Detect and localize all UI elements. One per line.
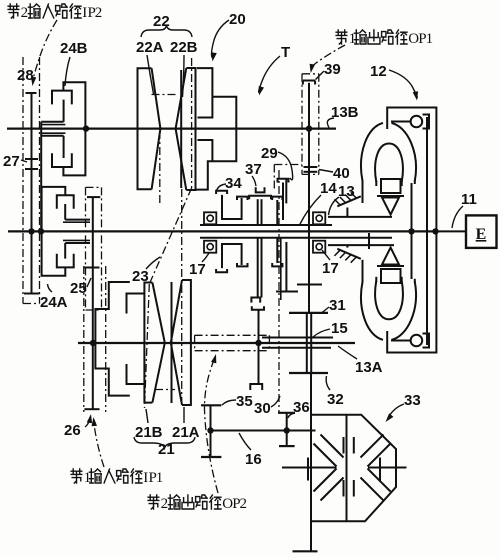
svg-text:21A: 21A	[172, 424, 200, 441]
net OP1 leader dash-dot	[311, 45, 345, 70]
TC upper turbine arc	[375, 144, 403, 183]
TC frame	[387, 108, 436, 353]
svg-text:35: 35	[236, 393, 253, 410]
svg-text:29: 29	[261, 145, 278, 162]
gear 38 stem pair	[257, 238, 259, 298]
gear 37 flange bar	[249, 196, 271, 199]
gear stem near TC	[368, 233, 370, 249]
svg-text:13A: 13A	[355, 359, 383, 376]
gear 29 sleeve line	[285, 179, 287, 204]
clutch lower sleeve bars	[41, 135, 63, 137]
gear 30 bar	[276, 291, 298, 293]
bearing box upper-left	[204, 212, 216, 224]
below cap bar left	[216, 269, 227, 272]
node 36 on line16	[284, 427, 290, 433]
wire hollow shaft lower line 17	[200, 237, 392, 239]
node junction 13A / IP1 line	[90, 340, 96, 346]
wire shaft 13A (lower)	[78, 342, 355, 344]
gear 36 stem	[286, 413, 288, 446]
node junction 13A / gear 38 stem	[255, 340, 261, 346]
TC lower stator square	[381, 269, 401, 283]
net 25 dash-dot box	[85, 187, 87, 310]
wire shaft 13B (top)	[7, 128, 336, 130]
spline shaft 25/IP1 vertical	[92, 197, 94, 409]
svg-text:T: T	[281, 44, 290, 61]
svg-text:1: 1	[426, 31, 434, 47]
svg-text:I: I	[82, 5, 87, 21]
brake 28 cap bar	[26, 92, 37, 94]
svg-text:21: 21	[158, 441, 175, 458]
svg-text:E: E	[476, 226, 487, 243]
final drive vertical to differential	[310, 373, 312, 551]
svg-text:13B: 13B	[331, 104, 359, 121]
gear 29 stem	[282, 183, 284, 221]
svg-text:26: 26	[64, 422, 81, 439]
clutch 24B sleeve bars	[41, 121, 63, 123]
svg-text:37: 37	[245, 161, 262, 178]
wire main axis shaft (engine input)	[8, 230, 436, 232]
axle right	[368, 467, 407, 469]
svg-text:31: 31	[329, 297, 346, 314]
net IP2 dash-dot box bottom	[23, 303, 40, 305]
svg-text:17: 17	[322, 260, 339, 277]
svg-text:2: 2	[240, 496, 248, 512]
net 29 dash-dot link	[273, 165, 275, 191]
brace for 22A 22B	[141, 25, 192, 37]
gear bar at 285	[297, 284, 322, 286]
svg-text:2: 2	[21, 5, 29, 21]
belt line dash-dot through 21B	[145, 284, 150, 408]
svg-text:2: 2	[95, 5, 103, 21]
drum 21 inner hook lower	[127, 364, 145, 384]
coupling 40 bars	[304, 166, 318, 168]
clutch drum 20 outline	[195, 68, 236, 190]
svg-text:24A: 24A	[40, 294, 68, 311]
wire line 16	[208, 430, 316, 432]
TC upper pump shell arc	[361, 123, 383, 181]
differential 33 housing	[311, 415, 396, 522]
gear 34 cap bar	[216, 191, 227, 194]
svg-text:25: 25	[70, 280, 87, 297]
svg-text:27: 27	[3, 153, 20, 170]
engine box 11	[466, 215, 497, 248]
net IP1 dash-dot pair	[83, 266, 85, 412]
net IP2 leader to label	[33, 20, 57, 80]
gear 38 lower flange	[252, 306, 264, 309]
gear 30 bracket feet	[250, 384, 262, 390]
wire clutch sleeve vertical to main axis	[40, 122, 42, 232]
pulley sheave 22B	[186, 68, 195, 190]
belt dash-dot slant 23	[149, 188, 191, 284]
coupling bar top	[87, 196, 100, 198]
gear 37 cap (up ticks)	[256, 187, 265, 192]
clutch 24A upper pack	[42, 187, 66, 232]
gear 35 top bar	[201, 404, 221, 406]
below cap bar C2	[272, 263, 282, 266]
diff pinion diagonals right	[368, 444, 391, 467]
sleeve solid 30	[280, 238, 282, 300]
drum 20 inner hook upper	[198, 98, 213, 118]
diff pinion diagonals left	[314, 444, 337, 467]
pulley sheave 22A	[138, 68, 152, 189]
net OP2 leader	[204, 360, 218, 493]
gear 15 lower bar	[262, 347, 331, 349]
axle left	[282, 467, 337, 469]
axle left side-gear bar	[307, 458, 309, 481]
label OP2 text	[148, 495, 159, 509]
gear 38 lower stem	[258, 310, 260, 384]
clutch drum 21 outline	[95, 282, 129, 396]
clutch 24B lower pack (mirror)	[63, 129, 85, 176]
net OP1 dash-dot box	[301, 74, 303, 175]
svg-text:34: 34	[225, 175, 242, 192]
TC lower turbine arc	[375, 281, 403, 320]
TC output circle bottom	[411, 335, 423, 347]
node junction main axis / turbine line	[408, 228, 414, 234]
leader 22A	[147, 55, 154, 94]
drum 21 inner hook upper	[127, 294, 145, 314]
brace 21	[134, 437, 195, 448]
svg-text:17: 17	[189, 261, 206, 278]
clutch 24A upper sleeve	[65, 219, 90, 221]
bearing box upper-right	[313, 212, 325, 224]
node 35 on line16	[207, 427, 213, 433]
gear 15 upper bar	[262, 337, 333, 339]
svg-text:22A: 22A	[136, 39, 164, 56]
brake stem bottom T bar	[24, 293, 40, 295]
wire to engine	[436, 230, 467, 232]
TC upper stator square	[381, 179, 401, 193]
brake 28 / 27 stem vertical	[31, 93, 33, 294]
label OP1 text	[336, 30, 347, 44]
gear cap bar C	[272, 197, 282, 200]
gear 39 bar	[303, 80, 315, 82]
coupling bar bottom 26	[84, 408, 99, 410]
gear 31 bar	[289, 312, 328, 314]
gear 36 top bar	[278, 412, 295, 414]
gear 32 bar	[289, 372, 328, 374]
svg-text:11: 11	[461, 191, 477, 208]
svg-text:13: 13	[338, 183, 355, 200]
belt line dash-dot through 22B	[191, 58, 193, 188]
differential divider	[346, 415, 348, 522]
svg-text:32: 32	[327, 391, 344, 408]
svg-text:1: 1	[156, 470, 164, 486]
svg-text:20: 20	[229, 11, 246, 28]
diff side bars near divider	[343, 437, 345, 454]
clutch 24A lower sleeve	[65, 242, 90, 244]
svg-text:23: 23	[132, 268, 149, 285]
brake 27 upper bar	[25, 158, 38, 160]
TC lower stator cone	[382, 248, 399, 265]
gear 35 stem	[210, 405, 212, 457]
bearing box lower-left	[204, 241, 216, 253]
label IP1 text	[71, 469, 82, 483]
TC inner vertical	[426, 117, 428, 345]
svg-text:30: 30	[254, 400, 271, 417]
wire lower stator line	[328, 244, 394, 246]
gear stem under right bearing	[308, 240, 310, 285]
TC upper stator cone	[382, 198, 399, 215]
gear 29 bar	[278, 179, 289, 183]
svg-text:39: 39	[324, 61, 341, 78]
node junction main axis / clutch sleeve	[38, 228, 44, 234]
belt bottom dash-dot	[155, 389, 175, 391]
drum 20 inner hook lower	[198, 140, 213, 161]
TC turbine line	[411, 183, 413, 279]
gear 38 cap (down ticks)	[251, 298, 260, 303]
net OP2 dash-dot vertical	[278, 170, 280, 412]
svg-text:2: 2	[161, 496, 169, 512]
svg-text:14: 14	[320, 180, 337, 197]
svg-text:28: 28	[17, 67, 34, 84]
gear 31/15 stem pair	[306, 313, 308, 373]
gear cluster below: U body left	[222, 244, 242, 268]
net IP1 leader	[94, 424, 104, 467]
gear cap bar B	[237, 197, 248, 200]
pulley sheave 21B	[144, 283, 152, 403]
node junction on 13B at OP1 line	[306, 125, 312, 131]
net IP2 dash-dot box left	[22, 57, 24, 304]
net IP2 dash-dot box right	[39, 57, 41, 304]
centerline dash-dot 22B/21A hub	[181, 189, 183, 404]
gear 35 bottom bar	[201, 456, 221, 458]
below cap bar B2	[237, 263, 248, 266]
belt top dash-dot	[152, 94, 177, 96]
clutch 24A lower pack	[42, 231, 66, 275]
TC input circle top	[411, 116, 423, 128]
svg-text:I: I	[143, 470, 148, 486]
svg-text:24B: 24B	[60, 40, 88, 57]
coupling bar 25	[84, 267, 99, 269]
label IP2 text	[8, 4, 19, 18]
pulley sheave 21A	[182, 280, 191, 405]
brake 27 lower bar	[25, 168, 38, 170]
leader 22B	[183, 55, 185, 97]
svg-text:12: 12	[370, 63, 387, 80]
node junction main axis / TC frame	[432, 228, 438, 234]
svg-text:16: 16	[245, 451, 262, 468]
gear 37 stem pair	[257, 199, 259, 225]
gear 36 bottom bar	[279, 445, 295, 447]
svg-text:22B: 22B	[170, 39, 198, 56]
bearing box lower-right	[313, 241, 325, 253]
shaft OP1 vertical 39-31	[308, 83, 310, 313]
gear 34 body U	[222, 195, 242, 219]
svg-text:15: 15	[331, 320, 348, 337]
node junction main axis / brake stem	[28, 228, 34, 234]
TC lower pump shell arc	[361, 282, 383, 340]
ground hatch lower	[337, 249, 361, 259]
ground hatch upper (stator support)	[337, 196, 361, 206]
svg-text:21B: 21B	[135, 424, 163, 441]
axle right side-gear bar	[379, 458, 381, 481]
clutch 24B upper pack	[63, 82, 85, 128]
net OP2 dash-dot rect on 13A	[195, 334, 270, 336]
gear 30 sleeve stem	[285, 242, 287, 292]
svg-text:33: 33	[404, 392, 421, 409]
wire hollow shaft upper line 14	[200, 224, 332, 226]
svg-text:36: 36	[293, 399, 310, 416]
diff output bottom bar	[293, 550, 318, 552]
wire stator shaft line 13	[328, 216, 392, 218]
node junction on 13B at clutch 24B drum	[83, 125, 89, 131]
